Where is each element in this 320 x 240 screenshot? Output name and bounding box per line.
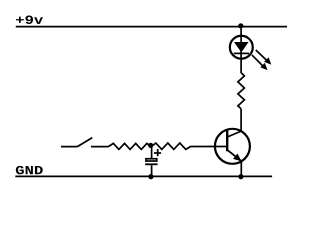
switch S1 (SPST, open) xyxy=(61,138,109,147)
LED light-emission arrow (upper) xyxy=(256,50,271,65)
net GND label xyxy=(16,166,43,174)
wire from +9V rail down to LED xyxy=(240,26,242,73)
resistor (LED series, vertical) xyxy=(238,73,245,109)
wire R2 to transistor base xyxy=(191,146,228,148)
node: capacitor junction dot on ground rail xyxy=(148,174,153,179)
+9V rail wire xyxy=(16,26,287,28)
transistor Q1 (NPN) xyxy=(215,129,250,164)
ground rail wire xyxy=(15,175,272,177)
node: junction dot on +9V rail xyxy=(238,23,243,28)
net +9v label xyxy=(16,16,43,24)
capacitor C1 (polarized) xyxy=(145,146,158,177)
resistor R1 (switch to node) xyxy=(109,143,151,149)
capacitor C1 polarity + label xyxy=(154,149,161,156)
LED light-emission arrow (lower) xyxy=(252,55,268,70)
wire emitter to ground rail xyxy=(240,161,242,177)
wire resistor to transistor collector xyxy=(240,109,242,131)
resistor R2 (node to transistor base) xyxy=(152,143,191,149)
node: junction dot (R1/R2/C1) xyxy=(148,143,153,148)
LED D1 xyxy=(230,36,253,59)
node: emitter junction dot on ground rail xyxy=(238,174,243,179)
